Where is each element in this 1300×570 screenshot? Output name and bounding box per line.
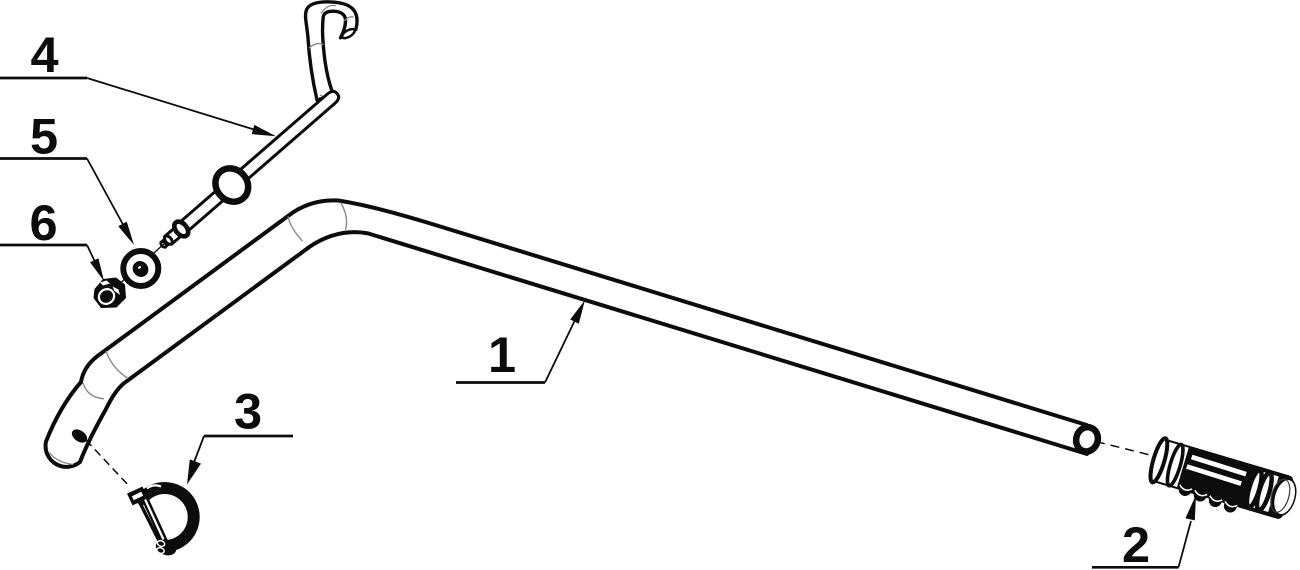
underline label 1	[456, 381, 545, 384]
scallop arc 3	[1209, 496, 1222, 503]
hook shading arc lower	[309, 44, 324, 48]
svg-text:3: 3	[234, 383, 262, 440]
nut 6 facet highlight top	[100, 281, 110, 286]
underline label 5	[0, 157, 87, 160]
hook of rod 4	[306, 2, 357, 100]
tube 1 kink shading arc 1	[106, 351, 128, 379]
washer 5 hub hole	[129, 258, 151, 280]
arrowhead 3	[187, 459, 201, 484]
left collar rim	[1147, 437, 1171, 484]
tube 1 kink shading arc 2	[83, 383, 104, 399]
pin	[143, 495, 165, 542]
rod 4 tip step ring	[163, 235, 174, 246]
tube 1 pin hole (left end)	[69, 427, 89, 446]
rod 4 tip end face	[160, 241, 168, 249]
pin core highlight	[144, 497, 164, 540]
arrowhead 6	[90, 258, 104, 281]
svg-text:2: 2	[1122, 516, 1150, 570]
grip body silhouette	[1149, 438, 1294, 520]
dashed line tube end to grip	[1096, 442, 1152, 456]
underline label 2	[1092, 566, 1179, 569]
hook shading arc top	[321, 5, 336, 13]
svg-text:6: 6	[29, 194, 57, 251]
scallop bump 2	[1192, 487, 1208, 503]
tube 1 open end ring (right)	[1073, 424, 1101, 454]
arrowhead 1	[570, 300, 585, 324]
rod 4 mid cylinder	[165, 225, 185, 244]
scallop arc 2	[1194, 490, 1207, 497]
bow chord side	[139, 500, 163, 547]
shaft junction shading arc	[320, 95, 335, 106]
rod 4 (hook rod)	[150, 2, 357, 259]
svg-text:5: 5	[30, 108, 58, 165]
grip 2	[1145, 437, 1300, 530]
bottom lug	[154, 537, 179, 558]
bow	[142, 488, 194, 546]
washer 5	[123, 251, 158, 286]
nut 6 hex body	[94, 278, 127, 309]
top white curl	[147, 485, 161, 488]
scallop bump 1	[1177, 481, 1193, 497]
grip stripe lower	[1187, 466, 1242, 483]
end cap rim	[1266, 474, 1300, 519]
pin head	[127, 487, 148, 506]
rod 4 step ring	[172, 219, 191, 239]
underline label 3	[204, 435, 293, 438]
grip dark ring 2	[1254, 471, 1275, 511]
lug ring 1	[157, 540, 166, 548]
pin head slot	[132, 492, 143, 500]
grip dark ring 1	[1244, 468, 1265, 508]
collar dark ring	[1164, 443, 1186, 487]
tube 1 bend shading arc upper-right	[341, 203, 347, 231]
shackle 3 (clevis pin clip)	[127, 485, 194, 558]
svg-text:4: 4	[30, 26, 58, 83]
right white section with dark rings	[1245, 470, 1279, 512]
nut 6 facet highlight right	[113, 287, 121, 296]
nut 6	[94, 278, 127, 309]
leader line 5	[87, 159, 126, 231]
scallop bump 3	[1207, 492, 1223, 508]
rod 4 tip cylinder	[161, 238, 171, 248]
leader line 6	[87, 245, 97, 266]
underline label 4	[0, 77, 87, 80]
scallop arc 4	[1224, 501, 1237, 508]
washer 5 hub highlight	[138, 266, 142, 270]
dashed line hole to shackle	[86, 440, 130, 487]
washer 5 outer ring	[123, 251, 158, 286]
tube 1 (main handle tube) outline	[46, 200, 1087, 467]
leader line 1	[545, 318, 576, 383]
leader line 2	[1179, 521, 1192, 567]
hook shading arc right leg	[345, 17, 354, 21]
rod 4 shaft	[178, 89, 341, 233]
underline label 6	[0, 244, 87, 247]
tube 1 end cap shading arc	[50, 453, 74, 465]
scallop arc 1	[1179, 485, 1192, 492]
grip stripe upper	[1191, 457, 1246, 474]
collar white section	[1156, 441, 1189, 487]
hook tip end cap	[341, 27, 356, 40]
svg-text:1: 1	[488, 326, 516, 383]
lug ring 2	[156, 547, 165, 555]
leader line 4	[87, 78, 264, 133]
tube 1 bend shading arc upper-left	[288, 217, 303, 242]
arrowhead 2	[1185, 495, 1196, 520]
scallop bump 4	[1222, 498, 1238, 514]
axis line rod tip - washer - nut	[112, 243, 165, 291]
end cap inner arc	[1267, 477, 1293, 514]
rod 4 flange ring	[209, 162, 255, 209]
end cap face	[1271, 478, 1299, 517]
arrowhead 5	[118, 222, 134, 245]
nut 6 face ring	[96, 286, 117, 307]
leader line 3	[193, 436, 204, 465]
arrowhead 4	[252, 125, 276, 136]
